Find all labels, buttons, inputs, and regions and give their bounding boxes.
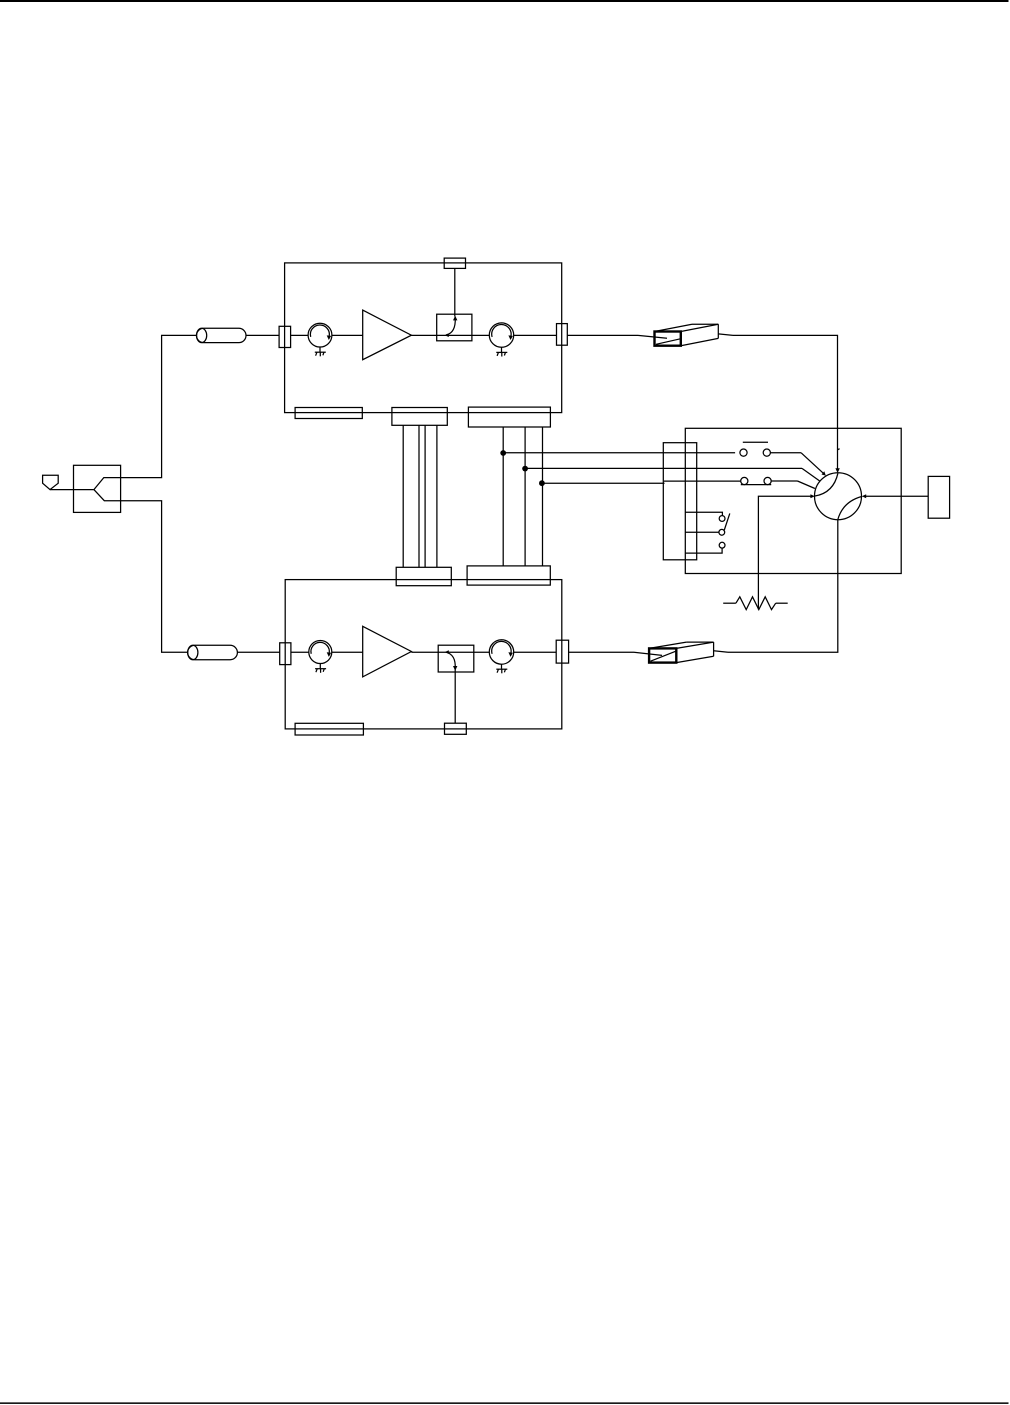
delay line DL2 [188, 645, 238, 659]
resonator bank B2 top bar [468, 407, 550, 427]
circulator X4 [489, 640, 513, 664]
wire DL2 to dc block [237, 651, 279, 653]
switch contact S1 [740, 442, 771, 456]
resonator bank B2 lines [503, 427, 542, 566]
termination load Z1 [928, 476, 949, 518]
amplifier module box 1 [285, 263, 562, 413]
splitter U1 [74, 465, 121, 512]
wire S1 to switch circle [770, 453, 825, 476]
ground [315, 664, 326, 673]
dc block C4 [556, 640, 568, 663]
wire circulator to dc block [514, 334, 557, 336]
wire C2 to filter FL1 [567, 335, 667, 338]
resonator bank B1 top bar [392, 408, 447, 426]
wire antenna to splitter [50, 489, 94, 491]
ground [496, 347, 507, 356]
coupler CP1 [437, 314, 472, 341]
wire S2 to switch circle [771, 481, 815, 489]
wire C4 to filter FL2 [569, 652, 662, 655]
wire FL1 to switch circle [718, 334, 840, 473]
wire line2 to switch circle [525, 468, 820, 481]
wire DL1 to DC block [246, 334, 279, 336]
circulator X3 [309, 641, 332, 664]
coupler port pad P1 [444, 258, 465, 268]
circulator X1 [308, 323, 332, 347]
wire coupled port down [454, 668, 456, 723]
microstrip MS1 [295, 408, 362, 419]
wire circulator to amp [332, 651, 363, 653]
filter FL2 [649, 642, 714, 663]
antenna ANT [43, 475, 59, 489]
node dot line1 [500, 450, 506, 456]
resistor R1 [723, 597, 788, 610]
amplifier module box 2 [285, 580, 562, 729]
wire SW1 left port to resistor [758, 494, 814, 609]
switch contact S2 [741, 477, 772, 484]
ground [496, 664, 507, 673]
coupler port pad P2 [445, 723, 467, 734]
wire C1 to circulator [291, 334, 309, 336]
wire circulator to dc block [514, 651, 557, 653]
wire amp through coupler to circulator [411, 651, 489, 653]
dc block C1 [279, 326, 291, 347]
filter FL1 [655, 324, 719, 346]
wire C3 to circulator [291, 651, 309, 653]
wire circulator to amp [332, 334, 363, 336]
control switch K1 [685, 512, 729, 553]
switch assembly box [685, 428, 901, 573]
wire SW1 right port to load [862, 494, 928, 498]
transfer switch SW1 [815, 473, 863, 520]
delay line DL1 [197, 328, 247, 342]
wire FL2 exit [714, 651, 728, 653]
resonator bank B1 bottom bar [396, 567, 451, 585]
microstrip MS2 [295, 723, 363, 735]
dc block C2 [557, 324, 568, 346]
wire line1 to contact [503, 452, 735, 454]
wire splitter lower output [121, 501, 188, 653]
amplifier A1 [363, 310, 412, 360]
circulator X2 [489, 323, 513, 347]
wire coupled port up [454, 268, 456, 316]
resonator bank B1 lines [403, 425, 437, 567]
ground [315, 347, 326, 356]
wire line3 to contact [542, 481, 741, 483]
wire amp through coupler to circulator [411, 334, 489, 336]
resonator bank B2 bottom bar [467, 566, 550, 585]
wire splitter upper output [121, 335, 197, 477]
wire SW1 bottom port to lower chain [728, 520, 838, 653]
dc block C3 [280, 643, 291, 665]
node dot line3 [539, 480, 545, 486]
node dot line2 [522, 466, 528, 472]
coupler CP2 [438, 645, 474, 672]
connector J1 [663, 443, 696, 560]
amplifier A2 [363, 626, 412, 677]
